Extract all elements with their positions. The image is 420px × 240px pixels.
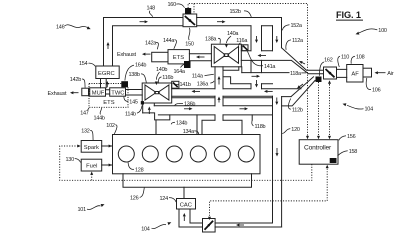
arrow flow left exhaust top <box>145 53 150 55</box>
leader 140b <box>156 72 159 80</box>
svg-text:156: 156 <box>347 134 356 140</box>
AF box 108 <box>347 65 363 83</box>
arrow flow right Dtop 1 <box>184 108 189 110</box>
svg-text:142a: 142a <box>145 41 157 47</box>
svg-text:112b: 112b <box>292 107 303 113</box>
turbo B corner sensor <box>141 101 144 104</box>
valve 163 box <box>203 219 216 233</box>
svg-text:Exhaust: Exhaust <box>48 91 67 97</box>
controller box 156 <box>299 140 338 165</box>
arrow ctrl up into controller bottom <box>326 165 329 168</box>
ETS box top <box>168 50 189 64</box>
svg-text:MUF: MUF <box>92 91 105 97</box>
leader 145 <box>124 97 129 102</box>
arrow flow right top duct 2 <box>217 21 222 23</box>
leader 152b <box>244 11 251 17</box>
leader 144a <box>174 40 177 49</box>
arrow flow left exhaust bottom <box>73 92 78 94</box>
wire L_C duct top y105.2 <box>154 105 272 107</box>
leader 136b <box>175 103 183 105</box>
leader-arrow 146 <box>87 26 91 29</box>
svg-text:106: 106 <box>372 88 381 94</box>
wire CAC riser <box>179 209 190 227</box>
svg-text:CAC: CAC <box>180 202 192 208</box>
arrow flow up riser turbineA 1 <box>218 79 220 84</box>
svg-text:148: 148 <box>147 6 156 12</box>
svg-text:ETS: ETS <box>173 55 184 61</box>
leader-arrow 104r <box>343 103 347 106</box>
svg-text:138a: 138a <box>205 36 217 42</box>
leader 136a <box>210 81 214 83</box>
TWC box <box>110 88 126 96</box>
arrow ctrl up into throttle <box>329 83 331 86</box>
svg-text:116a: 116a <box>236 38 248 44</box>
svg-text:136a: 136a <box>197 81 209 87</box>
svg-text:TWC: TWC <box>111 91 124 97</box>
fuel box connector <box>102 164 113 166</box>
leader 138b <box>141 74 146 83</box>
arrow flow left air inlet <box>378 72 386 74</box>
svg-text:164a: 164a <box>174 69 186 75</box>
svg-text:140a: 140a <box>227 31 239 37</box>
svg-text:112a: 112a <box>292 38 304 44</box>
arrow flow down duct A lower <box>256 80 258 84</box>
spark box connector <box>102 145 113 147</box>
svg-text:164b: 164b <box>135 63 146 69</box>
svg-text:118b: 118b <box>255 124 266 130</box>
svg-text:124: 124 <box>160 196 169 202</box>
wire TWC to turboB duct <box>126 90 143 96</box>
leader 102 <box>114 125 117 134</box>
svg-text:100: 100 <box>378 28 387 34</box>
wire exhaust duct y88 <box>172 88 301 90</box>
leader 112b <box>288 99 290 110</box>
wire 112b upper diagonal D2 <box>291 77 313 97</box>
valve diagonals <box>173 16 335 230</box>
arrow flow left bottom return <box>239 224 244 226</box>
wire manifold B box <box>143 113 197 135</box>
leader 118a <box>301 72 306 74</box>
arrow flow down duct B upper <box>276 36 278 40</box>
svg-text:116b: 116b <box>162 75 173 81</box>
Fuel box 130 <box>81 159 102 171</box>
leader 110 <box>338 56 340 67</box>
arrow flow upleft 112a diag <box>302 63 305 65</box>
controller driver chip 158 <box>330 158 337 163</box>
flow arrows <box>70 20 386 226</box>
leader 101 <box>87 206 101 210</box>
leader 142a <box>156 42 158 49</box>
svg-text:142b: 142b <box>70 77 81 83</box>
svg-text:104: 104 <box>365 107 374 113</box>
svg-text:Air: Air <box>387 71 394 77</box>
leader 120 <box>282 129 290 134</box>
svg-text:136b: 136b <box>184 102 195 108</box>
svg-text:138b: 138b <box>129 72 140 78</box>
svg-text:126: 126 <box>130 196 139 202</box>
leader 118b <box>252 120 254 126</box>
Spark box 132 <box>81 141 102 153</box>
leader 100 <box>359 29 377 33</box>
pipe 110 <box>337 69 347 77</box>
wire turbo B bottom riser <box>143 103 155 113</box>
wire 112a upper diagonal <box>282 48 324 71</box>
title underline <box>336 19 363 21</box>
arrow flow up EGR tap <box>106 84 108 87</box>
wire top duct inner <box>113 26 273 66</box>
svg-text:158: 158 <box>349 149 358 155</box>
leader 152a <box>282 25 289 31</box>
leader 116a <box>239 43 241 48</box>
leader-arrow 104l <box>167 222 171 225</box>
wire bottom return duct <box>190 222 273 224</box>
arrow ctrl down into controller 3 <box>328 136 331 139</box>
svg-text:102: 102 <box>106 123 115 129</box>
svg-text:Spark: Spark <box>84 145 99 151</box>
leader 144b <box>100 108 101 115</box>
leader-arrow 140b <box>155 82 158 86</box>
leader 104r <box>347 105 364 109</box>
leader 150 <box>189 28 190 40</box>
svg-text:160: 160 <box>168 2 177 8</box>
svg-text:Controller: Controller <box>304 145 332 152</box>
svg-text:162: 162 <box>324 57 333 63</box>
arrow flow left exhaust duct mid <box>267 90 272 92</box>
wire compressor A outlet duct walls <box>241 50 272 52</box>
leader 142b <box>82 79 85 88</box>
arrow flow right top duct 1 <box>140 21 145 23</box>
svg-text:EGRC: EGRC <box>98 71 115 77</box>
arrow flow up EGR riser <box>107 45 109 49</box>
svg-text:146: 146 <box>56 24 65 30</box>
arrow spark into engine <box>109 145 112 148</box>
svg-text:145: 145 <box>129 99 138 105</box>
wire MUF-TWC connector <box>106 90 110 94</box>
leader 134b <box>171 122 175 124</box>
svg-text:132: 132 <box>81 129 90 135</box>
cylinder 5 <box>214 146 230 162</box>
wire top duct outer <box>104 18 282 67</box>
connector box top exhaust <box>152 52 168 62</box>
leader 146 <box>65 25 89 28</box>
leader 138a <box>218 38 220 43</box>
svg-text:140b: 140b <box>156 67 167 73</box>
control line controller to valve 163 <box>210 166 328 217</box>
wire EGR duct B verticals <box>272 26 274 51</box>
wire EGRC risers below <box>101 79 107 88</box>
leader 164b <box>125 65 134 80</box>
EGRC box 154 <box>96 66 119 79</box>
wire duct ETS-A to turbo A <box>189 54 211 61</box>
leader 164a <box>181 65 185 68</box>
leader 104l <box>152 225 167 229</box>
svg-text:134a: 134a <box>183 129 195 135</box>
svg-text:FIG. 1: FIG. 1 <box>336 10 361 20</box>
svg-text:128: 128 <box>135 167 144 173</box>
arrow flow downleft 112b diag <box>300 84 303 87</box>
arrow flow down 120 crossing <box>276 98 278 102</box>
control line throttle solenoid to controller <box>318 82 320 138</box>
engine block 102 <box>113 135 261 174</box>
solid black elements <box>121 8 336 163</box>
arrow ctrl down into controller 1 <box>306 136 309 139</box>
inlet connector 106 <box>363 68 372 77</box>
arrow flow up riser turbineA 2 <box>218 100 220 103</box>
exhaust outlet connector box bottom <box>82 88 89 96</box>
sensor 164b <box>121 81 128 87</box>
svg-text:118a: 118a <box>290 71 302 77</box>
leader 158 <box>338 151 348 156</box>
wire 120 duct verticals <box>272 96 274 223</box>
arrow flow left ETS-A duct <box>199 56 204 58</box>
leader 156 <box>339 136 346 141</box>
wastegate 141b diagonal <box>173 83 178 88</box>
EGR valve 150 diagonal <box>185 16 195 25</box>
wire D_top bottom y114.4 <box>158 114 272 116</box>
turbo B bowtie <box>145 85 169 100</box>
svg-text:144a: 144a <box>163 38 175 44</box>
wastegate valve 141b box <box>172 81 179 88</box>
wastegate valve 141a box <box>242 45 248 51</box>
wastegate 141a diagonal <box>243 46 247 50</box>
leader 114b <box>137 106 142 114</box>
wire exhaust duct y95.8 <box>172 95 291 97</box>
arrow ctrl right into spark <box>77 145 80 148</box>
wire exhaust out left bottom <box>89 90 90 94</box>
svg-text:104: 104 <box>141 226 150 232</box>
leader 148 <box>149 11 152 17</box>
turbo A box <box>211 44 241 67</box>
arrow flow up below turboB <box>148 110 150 114</box>
svg-text:141a: 141a <box>264 64 276 70</box>
arrow flow down duct A upper <box>256 36 258 40</box>
arrow ctrl up into fuel <box>90 172 93 175</box>
leader 108 <box>351 56 355 63</box>
leader-arrow 140a <box>225 44 228 48</box>
arrow flow up CAC riser <box>183 216 185 221</box>
control line solenoid 160 to controller <box>188 4 307 139</box>
leader 134a <box>194 131 199 134</box>
svg-text:114b: 114b <box>125 112 136 118</box>
arrow ctrl down into controller 2 <box>317 136 320 139</box>
svg-text:152b: 152b <box>230 9 241 15</box>
svg-text:120: 120 <box>291 127 300 133</box>
throttle 162 diagonal <box>326 69 335 77</box>
leader 130 <box>75 159 81 163</box>
turbo A bowtie <box>214 47 238 64</box>
cylinder 4 <box>190 146 206 162</box>
leader 154 <box>89 63 96 66</box>
cylinder 1 <box>118 146 134 162</box>
throttle 162 box <box>324 67 337 79</box>
svg-text:144b: 144b <box>94 116 105 122</box>
wire engine bottom to CAC <box>123 174 252 187</box>
svg-text:134b: 134b <box>176 120 187 126</box>
svg-text:114a: 114a <box>192 74 204 80</box>
leader 162 <box>319 62 324 76</box>
turbo B box <box>142 83 172 103</box>
leader 141a <box>247 51 263 65</box>
cylinder 3 <box>166 146 182 162</box>
wire riser manifoldA to turbineA <box>214 67 216 120</box>
svg-text:Exhaust: Exhaust <box>117 52 136 58</box>
wire EGR duct A verticals <box>250 26 252 89</box>
EGR valve 150 box <box>183 14 197 27</box>
svg-text:101: 101 <box>78 207 87 213</box>
wire 112b lower diagonal D3 <box>282 81 315 106</box>
control line throttle actuator to controller <box>329 85 331 139</box>
CAC box 124 <box>177 199 196 210</box>
control line controller to spark fuel <box>60 146 312 180</box>
leader 126 <box>140 188 145 198</box>
svg-text:ETS: ETS <box>103 100 114 106</box>
leader 128 <box>128 162 134 169</box>
leader 124 <box>169 198 176 202</box>
arrow ctrl down into valve163 <box>208 217 211 220</box>
leader 147 <box>88 108 90 111</box>
leader 160 <box>176 4 184 8</box>
arrow flow down 120 duct <box>276 148 278 153</box>
valve 163 diagonal <box>205 221 214 230</box>
svg-text:108: 108 <box>356 55 365 61</box>
svg-text:152a: 152a <box>291 23 303 29</box>
leader 114a <box>205 74 214 75</box>
wire stub 118b <box>251 115 253 120</box>
solenoid 160 <box>185 8 191 14</box>
cylinder 2 <box>142 146 158 162</box>
leader-arrow 100 <box>356 32 360 35</box>
leader 141b <box>176 84 179 86</box>
wire manifold A box <box>202 120 242 134</box>
svg-text:Fuel: Fuel <box>86 164 97 170</box>
svg-text:141b: 141b <box>180 82 191 88</box>
svg-text:130: 130 <box>66 157 75 163</box>
arrow flow left compressorA duct <box>261 55 266 57</box>
svg-text:147: 147 <box>80 111 89 117</box>
leader 112a <box>286 40 291 50</box>
sensor 164a <box>184 61 191 68</box>
dotted ETS enclosure 147 <box>89 84 128 108</box>
arrow fuel into engine <box>109 164 112 167</box>
arrow flow left exhaust duct near turboB <box>195 90 200 92</box>
svg-text:150: 150 <box>185 42 194 48</box>
leader 106 <box>366 78 371 90</box>
svg-text:110: 110 <box>341 55 349 61</box>
arrow flow right H8 duct <box>252 75 257 77</box>
svg-text:AF: AF <box>351 72 359 78</box>
leader 116b <box>159 77 162 84</box>
throttle solenoid <box>316 77 322 83</box>
control line fuel branch <box>91 173 93 181</box>
MUF box <box>90 88 106 96</box>
dotted control lines <box>60 4 330 218</box>
wire turbine A outlet duct H8 H9 <box>242 72 289 74</box>
svg-text:154: 154 <box>79 61 88 67</box>
arrow flow right Dtop 2 <box>240 108 245 110</box>
leader 140a <box>226 36 231 43</box>
leader 132 <box>90 130 93 140</box>
leader-arrow 101 <box>101 204 105 207</box>
cylinder 6 <box>238 146 254 162</box>
